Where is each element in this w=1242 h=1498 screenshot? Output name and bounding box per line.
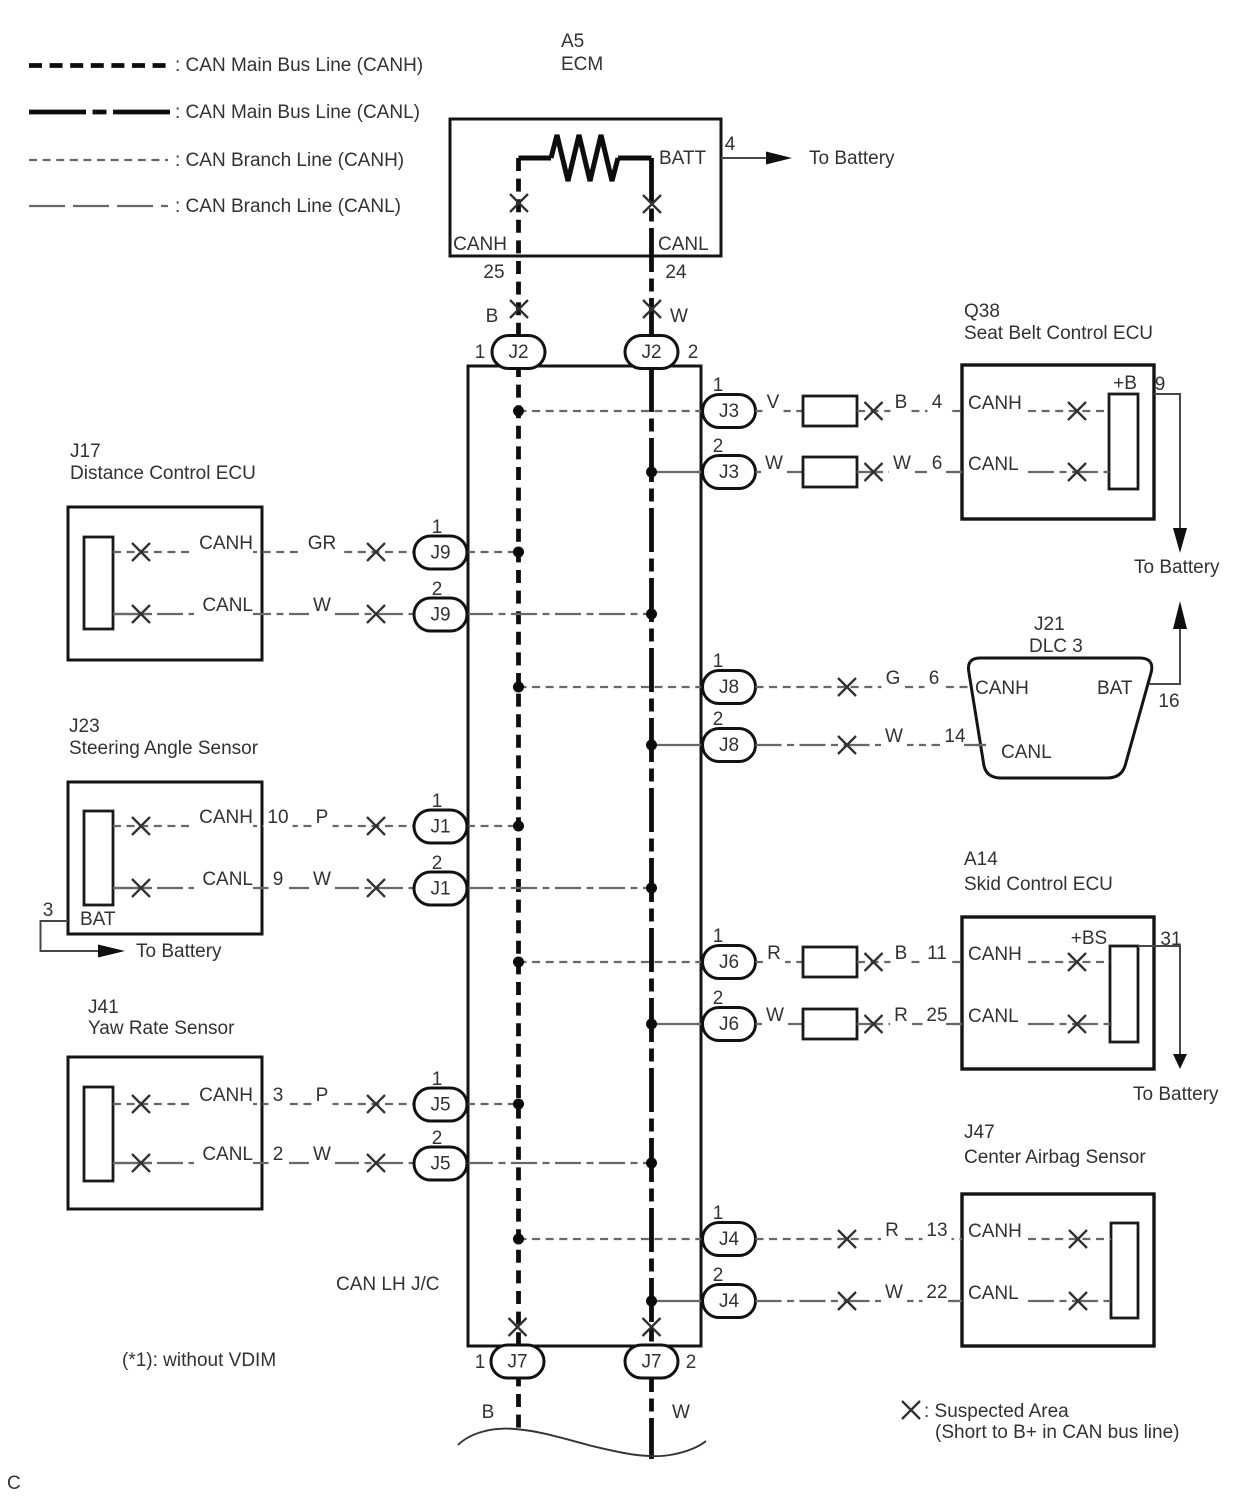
svg-text:W: W [885, 1282, 903, 1303]
junction connector J8 pin 2 [703, 709, 756, 762]
Q38 title [964, 301, 1153, 344]
svg-text:: CAN Branch Line (CANH): : CAN Branch Line (CANH) [175, 150, 404, 171]
svg-text:2: 2 [432, 853, 443, 874]
legend line: CAN Main Bus Line (CANH) [29, 55, 423, 76]
svg-text:J2: J2 [641, 342, 661, 363]
wire J8-2 to DLC3 CANL [756, 726, 987, 748]
junction node on CANH bus [513, 821, 524, 832]
svg-text:Steering Angle Sensor: Steering Angle Sensor [69, 738, 259, 759]
svg-text:Center Airbag Sensor: Center Airbag Sensor [964, 1147, 1146, 1168]
svg-text:CANL: CANL [1001, 742, 1052, 763]
svg-text:W: W [766, 1005, 784, 1026]
svg-text:ECM: ECM [561, 54, 603, 75]
legend line: CAN Branch Line (CANL) [29, 196, 401, 217]
svg-text:22: 22 [926, 1282, 947, 1303]
wire color labels J3 row1 [763, 392, 947, 414]
svg-text:24: 24 [665, 262, 687, 283]
svg-text:B: B [482, 1402, 495, 1423]
svg-text:J47: J47 [964, 1122, 995, 1143]
svg-text:W: W [670, 306, 688, 327]
svg-text:CANH: CANH [968, 944, 1022, 965]
suspected area X in J47 CANL [1069, 1292, 1087, 1310]
wire from noise filter to ECU [857, 471, 962, 473]
J17 CANL wire to junction J9-2 [113, 595, 414, 617]
svg-text:J3: J3 [719, 462, 739, 483]
svg-text:3: 3 [273, 1085, 284, 1106]
wire color labels J6 row2 [762, 1005, 952, 1027]
svg-text:A5: A5 [561, 31, 584, 52]
suspected area X on J8-1 branch [838, 678, 856, 696]
A14 connector [1110, 946, 1138, 1042]
suspected area X on CANL branch [865, 463, 883, 481]
svg-text:B: B [895, 392, 908, 413]
svg-text:CANH: CANH [968, 393, 1022, 414]
J47 connector [1111, 1223, 1138, 1318]
svg-text:14: 14 [944, 726, 966, 747]
svg-text:J6: J6 [719, 1014, 739, 1035]
svg-text:Yaw Rate Sensor: Yaw Rate Sensor [88, 1018, 235, 1039]
noise filter on CANH [803, 396, 857, 426]
CAN LH J/C junction box [468, 366, 701, 1346]
ECM pin labels BATT CANH CANL [453, 148, 709, 255]
suspected area X in J47 CANH [1069, 1230, 1087, 1248]
J23 CANH wire to junction J1-1 [113, 807, 414, 829]
wire from noise filter to ECU [857, 1023, 962, 1025]
svg-text:G: G [886, 668, 901, 689]
suspected area legend [902, 1401, 1179, 1443]
svg-text:2: 2 [432, 579, 443, 600]
svg-text:BAT: BAT [80, 909, 116, 930]
branch wire J5-1 to CANH bus [467, 1103, 519, 1105]
svg-text:CANH: CANH [199, 1085, 253, 1106]
legend line: CAN Main Bus Line (CANL) [29, 102, 420, 123]
wire color labels J3 row2 [761, 453, 947, 475]
svg-text:1: 1 [713, 926, 724, 947]
suspected area X on J8-2 branch [838, 736, 856, 754]
CANL main bus line (vertical, wire W) [649, 158, 654, 1459]
suspected area X on CANH inside ECM [510, 194, 528, 212]
svg-text:GR: GR [308, 533, 337, 554]
suspected area X in J17 CANH [132, 543, 150, 561]
svg-text:1: 1 [432, 1069, 443, 1090]
svg-text:CANL: CANL [968, 454, 1019, 475]
Q38 +B pin 9 wire to battery [1113, 373, 1220, 578]
suspected area X in A14 CANH [1068, 953, 1086, 971]
svg-text:2: 2 [273, 1144, 284, 1165]
svg-text:CANH: CANH [968, 1221, 1022, 1242]
junction connector J7 pin 1 [475, 1345, 544, 1378]
svg-text:W: W [313, 595, 331, 616]
svg-text:: CAN Main Bus Line (CANH): : CAN Main Bus Line (CANH) [175, 55, 423, 76]
suspected area X in J41 CANL [132, 1154, 150, 1172]
branch wire CANH from bus to junction J6-1 [519, 961, 703, 963]
junction connector J5 pin 1 [414, 1069, 467, 1121]
junction node on CANH bus [513, 547, 524, 558]
svg-text:9: 9 [273, 869, 284, 890]
svg-text:To Battery: To Battery [1134, 557, 1220, 578]
suspected area X on J23 CANH branch [367, 817, 385, 835]
Q38 CANH pin wire [968, 393, 1109, 414]
junction connector J1 pin 1 [414, 791, 467, 843]
A14 +BS pin 31 wire to battery [1071, 928, 1219, 1105]
J17 connector [84, 537, 113, 629]
suspected area X on J41 CANH branch [367, 1095, 385, 1113]
terminating resistor inside ECM [519, 135, 652, 181]
suspected area X on CANL above J7 [643, 1318, 661, 1336]
suspected area X in J41 CANH [132, 1095, 150, 1113]
svg-text:W: W [672, 1402, 690, 1423]
wire J6-1 to noise filter [756, 961, 804, 963]
junction node on CANL bus [646, 740, 657, 751]
svg-text:6: 6 [932, 453, 943, 474]
branch wire CANL from bus to junction J8-2 [652, 744, 703, 746]
svg-text:2: 2 [713, 436, 724, 457]
svg-text:Q38: Q38 [964, 301, 1000, 322]
svg-text:J17: J17 [70, 441, 101, 462]
torn-edge wavy line [458, 1429, 706, 1457]
svg-text:CANL: CANL [968, 1283, 1019, 1304]
suspected area X on J4-1 branch [838, 1230, 856, 1248]
svg-text:CANL: CANL [658, 234, 709, 255]
svg-text:1: 1 [475, 342, 486, 363]
svg-text:1: 1 [432, 517, 443, 538]
wire stub J3-2 into Q38 [946, 471, 962, 473]
svg-text:P: P [316, 807, 329, 828]
svg-text:CANH: CANH [199, 807, 253, 828]
branch wire J5-2 to CANL bus [467, 1162, 652, 1164]
branch wire CANL from bus to junction J3-2 [652, 471, 703, 473]
svg-text:CANH: CANH [199, 533, 253, 554]
J17 title [70, 441, 256, 484]
J17 CANH wire to junction J9-1 [113, 533, 414, 555]
wire color labels J6 row1 [763, 943, 951, 965]
svg-text:J8: J8 [719, 735, 739, 756]
svg-text:J41: J41 [88, 997, 119, 1018]
J47 CANH pin wire [968, 1221, 1111, 1242]
junction connector J9 pin 2 [414, 579, 467, 631]
J41 CANL wire to junction J5-2 [113, 1144, 414, 1166]
J23 CANL wire to junction J1-2 [113, 869, 414, 891]
svg-text:: CAN Branch Line (CANL): : CAN Branch Line (CANL) [175, 196, 401, 217]
svg-text:13: 13 [926, 1220, 947, 1241]
junction node on CANH bus [513, 1099, 524, 1110]
J47 title [964, 1122, 1146, 1168]
wire J3-1 to noise filter [756, 410, 804, 412]
junction node on CANH bus [513, 957, 524, 968]
junction connector J1 pin 2 [414, 853, 467, 905]
junction connector J6 pin 1 [703, 926, 756, 979]
svg-text:J1: J1 [430, 817, 450, 838]
svg-text:J7: J7 [507, 1352, 527, 1373]
svg-text:Seat Belt Control ECU: Seat Belt Control ECU [964, 323, 1153, 344]
svg-text:: CAN Main Bus Line (CANL): : CAN Main Bus Line (CANL) [175, 102, 420, 123]
junction connector J7 pin 2 [625, 1345, 696, 1378]
junction node on CANL bus [646, 1158, 657, 1169]
svg-text:Distance Control ECU: Distance Control ECU [70, 463, 256, 484]
J47 Center Airbag Sensor box [962, 1194, 1154, 1346]
svg-text:Skid Control ECU: Skid Control ECU [964, 874, 1113, 895]
junction node on CANL bus [646, 467, 657, 478]
junction node on CANH bus [513, 682, 524, 693]
svg-text:W: W [893, 453, 911, 474]
suspected area X on CANL inside ECM [643, 195, 661, 213]
wire J8-1 to DLC3 CANH [756, 668, 971, 690]
junction node on CANH bus [513, 1234, 524, 1245]
svg-text:CANL: CANL [202, 595, 253, 616]
J41 title [88, 997, 235, 1039]
wire J6-2 to noise filter [756, 1023, 804, 1025]
ECM box A5 [450, 119, 721, 256]
junction connector J3 pin 2 [703, 436, 756, 489]
svg-text:2: 2 [713, 1265, 724, 1286]
svg-text:J3: J3 [719, 401, 739, 422]
svg-text:R: R [885, 1220, 899, 1241]
A14 title [964, 849, 1113, 895]
svg-text:W: W [313, 1144, 331, 1165]
wire J3-2 to noise filter [756, 471, 804, 473]
junction connector J6 pin 2 [703, 988, 756, 1041]
svg-text:9: 9 [1155, 374, 1166, 395]
svg-text:2: 2 [688, 342, 699, 363]
suspected area X in Q38 CANL [1068, 463, 1086, 481]
J23 box [68, 782, 262, 934]
svg-text:W: W [313, 869, 331, 890]
svg-text:+B: +B [1113, 373, 1137, 394]
svg-text:1: 1 [432, 791, 443, 812]
A14 Skid Control ECU box [962, 917, 1154, 1069]
svg-text:B: B [895, 943, 908, 964]
suspected area X on CANL wire W [643, 300, 688, 327]
wire stub J4-2 into J47 [948, 1300, 962, 1302]
svg-text:CAN LH J/C: CAN LH J/C [336, 1274, 439, 1295]
J41 CANH wire to junction J5-1 [113, 1085, 414, 1107]
svg-text:25: 25 [483, 262, 504, 283]
svg-text:CANL: CANL [202, 869, 253, 890]
svg-text:(Short to B+ in CAN bus line): (Short to B+ in CAN bus line) [935, 1422, 1179, 1443]
branch wire CANL from bus to junction J4-2 [652, 1300, 703, 1302]
svg-text:2: 2 [432, 1128, 443, 1149]
svg-text:To Battery: To Battery [1133, 1084, 1219, 1105]
svg-text:DLC 3: DLC 3 [1029, 636, 1083, 657]
ECM A5 title [561, 31, 603, 75]
svg-text:W: W [885, 726, 903, 747]
svg-text:4: 4 [932, 392, 943, 413]
suspected area X on CANH branch [865, 953, 883, 971]
svg-text:A14: A14 [964, 849, 998, 870]
svg-text:J4: J4 [719, 1291, 740, 1312]
svg-text:W: W [765, 453, 783, 474]
svg-text:V: V [767, 392, 780, 413]
svg-text:J2: J2 [508, 342, 528, 363]
suspected area X on CANH wire B [486, 300, 528, 327]
suspected area X on J41 CANL branch [367, 1154, 385, 1172]
svg-text:3: 3 [43, 900, 54, 921]
junction connector J5 pin 2 [414, 1128, 467, 1180]
wire from noise filter to ECU [857, 961, 962, 963]
svg-text:J9: J9 [430, 543, 450, 564]
svg-text:CANL: CANL [968, 1006, 1019, 1027]
junction node on CANL bus [646, 1296, 657, 1307]
svg-text:R: R [767, 943, 781, 964]
junction node on CANL bus [646, 1019, 657, 1030]
DLC3 BAT pin 16 wire to battery [1149, 601, 1187, 684]
svg-text:2: 2 [713, 709, 724, 730]
svg-text:10: 10 [267, 807, 288, 828]
Q38 connector [1109, 394, 1138, 489]
A14 CANH pin wire [968, 944, 1110, 965]
svg-text:P: P [316, 1085, 329, 1106]
svg-text:J23: J23 [69, 716, 100, 737]
svg-text:BAT: BAT [1097, 678, 1133, 699]
branch wire CANH from bus to junction J3-1 [519, 410, 703, 412]
J41 connector [84, 1087, 113, 1181]
suspected area X on CANH branch [865, 402, 883, 420]
J23 connector [84, 811, 113, 905]
svg-text:16: 16 [1158, 691, 1179, 712]
suspected area X in A14 CANL [1068, 1015, 1086, 1033]
wire stub J6-2 into A14 [946, 1023, 962, 1025]
noise filter on CANL [803, 1009, 857, 1039]
svg-text:J7: J7 [641, 1352, 661, 1373]
svg-text:J5: J5 [430, 1154, 450, 1175]
svg-text:11: 11 [927, 943, 947, 964]
suspected area X in J23 CANL [132, 879, 150, 897]
A14 CANL pin wire [968, 1006, 1110, 1027]
svg-text:BATT: BATT [659, 148, 707, 169]
J41 box [68, 1057, 262, 1209]
DLC3 pin labels [975, 678, 1180, 763]
svg-text:J6: J6 [719, 952, 739, 973]
svg-text:CANH: CANH [453, 234, 507, 255]
junction connector J2 pin 1 [475, 336, 545, 369]
suspected area X in Q38 CANH [1068, 402, 1086, 420]
branch wire J9-2 to CANL bus [467, 613, 652, 615]
CANH main bus line (vertical, wire B) [516, 158, 521, 1432]
junction connector J3 pin 1 [703, 375, 756, 428]
DLC 3 connector body [968, 658, 1151, 778]
svg-text:4: 4 [725, 134, 736, 155]
J17 box [68, 507, 262, 660]
svg-text:J4: J4 [719, 1229, 740, 1250]
J21 DLC 3 title [1029, 614, 1083, 657]
J23 title [69, 716, 259, 759]
junction connector J4 pin 1 [703, 1203, 756, 1256]
suspected area X on J4-2 branch [838, 1292, 856, 1310]
J47 CANL pin wire [968, 1283, 1111, 1304]
svg-text:CANL: CANL [202, 1144, 253, 1165]
branch wire CANL from bus to junction J6-2 [652, 1023, 703, 1025]
svg-text:1: 1 [713, 1203, 724, 1224]
svg-text:J21: J21 [1034, 614, 1065, 635]
branch wire J1-1 to CANH bus [467, 825, 519, 827]
branch wire J9-1 to CANH bus [467, 551, 519, 553]
svg-text:(*1): without VDIM: (*1): without VDIM [122, 1350, 276, 1371]
branch wire J1-2 to CANL bus [467, 887, 652, 889]
svg-text:J8: J8 [719, 677, 739, 698]
svg-text:B: B [486, 306, 499, 327]
wire from noise filter to ECU [857, 410, 962, 412]
junction node on CANH bus [513, 406, 524, 417]
svg-text:J5: J5 [430, 1095, 450, 1116]
BATT pin 4 wire to battery [721, 134, 895, 169]
junction connector J4 pin 2 [703, 1265, 756, 1318]
suspected area X on CANH above J7 [509, 1318, 527, 1336]
suspected area X in J23 CANH [132, 817, 150, 835]
suspected area X on J23 CANL branch [367, 879, 385, 897]
svg-text:1: 1 [713, 651, 724, 672]
junction connector J8 pin 1 [703, 651, 756, 704]
suspected area X on J17 CANL branch [367, 605, 385, 623]
svg-text:J1: J1 [430, 879, 450, 900]
svg-text:To Battery: To Battery [136, 941, 222, 962]
svg-text:To Battery: To Battery [809, 148, 895, 169]
junction node on CANL bus [646, 883, 657, 894]
suspected area X on J17 CANH branch [367, 543, 385, 561]
branch wire CANH from bus to junction J4-1 [519, 1238, 703, 1240]
junction node on CANL bus [646, 609, 657, 620]
svg-text:2: 2 [686, 1352, 697, 1373]
svg-text:J9: J9 [430, 605, 450, 626]
junction connector J9 pin 1 [414, 517, 467, 569]
svg-text:1: 1 [475, 1352, 486, 1373]
svg-text:2: 2 [713, 988, 724, 1009]
wire stub J8-2 into DLC3 [964, 744, 986, 746]
legend line: CAN Branch Line (CANH) [29, 150, 404, 171]
svg-text:: Suspected Area: : Suspected Area [924, 1401, 1069, 1422]
junction connector J2 pin 2 [625, 336, 698, 369]
svg-text:CANH: CANH [975, 678, 1029, 699]
svg-text:6: 6 [929, 668, 940, 689]
CAN LH J/C label [336, 1274, 439, 1295]
J23 BAT pin 3 wire to battery [41, 900, 223, 962]
branch wire CANH from bus to junction J8-1 [519, 686, 703, 688]
suspected area X on CANL branch [865, 1015, 883, 1033]
Q38 CANL pin wire [968, 454, 1109, 475]
svg-text:C: C [7, 1473, 21, 1494]
noise filter on CANL [803, 457, 857, 487]
wire J4-1 to J47 CANH [756, 1220, 963, 1242]
Q38 Seat Belt Control ECU box [962, 365, 1154, 519]
wire J4-2 to J47 CANL [756, 1282, 963, 1304]
noise filter on CANH [803, 947, 857, 977]
svg-text:1: 1 [713, 375, 724, 396]
suspected area X in J17 CANL [132, 605, 150, 623]
svg-text:R: R [894, 1005, 908, 1026]
svg-text:+BS: +BS [1071, 928, 1107, 949]
svg-text:25: 25 [926, 1005, 947, 1026]
